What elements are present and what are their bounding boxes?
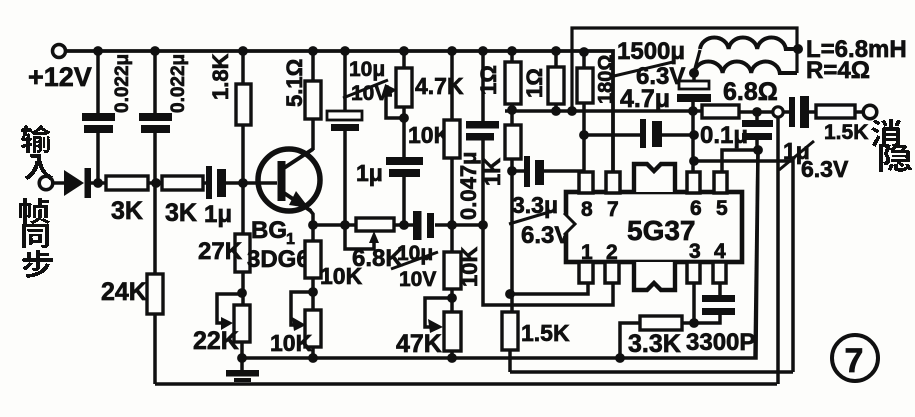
wire 10Kpot-gnd	[311, 347, 315, 358]
capacitor 1u/6.3V out	[789, 96, 809, 128]
resistor 1ohm a	[505, 62, 521, 104]
wire C4.7u-pin6	[662, 133, 694, 137]
svg-text:10K: 10K	[457, 247, 482, 287]
resistor 3K (second)	[162, 176, 203, 190]
label pin5	[716, 197, 728, 220]
junction 0.1u bottom	[753, 145, 763, 155]
wire line B	[510, 370, 793, 374]
junction bus-C047	[478, 46, 488, 56]
junction bus-C1	[93, 46, 103, 56]
label pin4	[714, 240, 726, 263]
label 27K	[198, 238, 243, 265]
label 3DG6	[247, 246, 310, 273]
junction pin6 node	[689, 156, 699, 166]
label 180ohm	[595, 55, 617, 104]
label pin1	[581, 241, 593, 264]
svg-text:2: 2	[606, 241, 618, 264]
label 4.7u	[620, 85, 670, 113]
capacitor 3300P	[694, 283, 735, 323]
wire R24K-lineC	[153, 314, 157, 384]
label pin7	[607, 198, 619, 221]
label 5.1ohm	[282, 59, 307, 107]
label 3K first	[111, 197, 143, 225]
wire R1a-R1K	[510, 104, 514, 126]
label 1u/6.3V	[779, 138, 849, 182]
label text 步	[22, 250, 53, 278]
svg-text:7: 7	[845, 342, 864, 380]
wire 3K-3K	[148, 181, 162, 185]
junction rail-10K	[447, 220, 457, 230]
label 10u/10V top	[343, 58, 388, 105]
resistor 180ohm	[577, 68, 593, 103]
label 0.1u	[700, 122, 748, 149]
junction 10K-gnd	[308, 353, 318, 363]
svg-text:3K: 3K	[111, 197, 143, 225]
wire em-R10K	[311, 225, 315, 242]
resistor 27K	[235, 234, 250, 272]
wire R10K1-rail	[450, 158, 454, 225]
svg-text:3.3K: 3.3K	[628, 330, 681, 358]
svg-text:R=4Ω: R=4Ω	[806, 57, 870, 84]
junction 4.7u node	[579, 130, 589, 140]
diode D1	[64, 168, 91, 198]
resistor 5.1ohm	[305, 81, 321, 119]
capacitor 4.7u	[640, 119, 662, 148]
svg-text:6.8Ω: 6.8Ω	[723, 78, 778, 106]
junction rail-047	[478, 220, 488, 230]
svg-text:1Ω: 1Ω	[522, 68, 547, 98]
junction coil-rail	[688, 106, 698, 116]
wire 6.8-out	[739, 110, 790, 114]
label 1500u/6.3V	[614, 38, 685, 90]
wire emitter	[309, 209, 313, 225]
junction bus-C2	[150, 46, 160, 56]
resistor 1K	[505, 125, 521, 159]
svg-text:6: 6	[690, 197, 702, 220]
label text 入	[25, 154, 53, 180]
wire R10K2-R47K	[450, 289, 454, 313]
resistor 3K (first)	[106, 176, 148, 190]
junction 22K bottom	[237, 353, 247, 363]
wire C3.3u-pin8	[544, 169, 584, 173]
wire C0.022b	[153, 51, 157, 183]
svg-text:6.3V: 6.3V	[521, 222, 570, 249]
junction bus-R5.1	[308, 46, 318, 56]
svg-text:7: 7	[607, 198, 619, 221]
capacitor 1500u	[677, 73, 711, 111]
wire R4.7K-C1u	[402, 107, 406, 159]
svg-text:1: 1	[581, 241, 593, 264]
pin 4 stub	[713, 262, 726, 283]
svg-text:5G37: 5G37	[627, 215, 696, 246]
label R=4ohm	[806, 57, 870, 84]
wire C1u-rail	[402, 177, 406, 225]
wire line C	[155, 382, 777, 386]
label 0.047u	[456, 151, 481, 220]
wire R1b-node	[554, 104, 558, 111]
pin 1 stub	[579, 262, 593, 283]
resistor 4.7K	[396, 68, 412, 107]
svg-text:10μ: 10μ	[349, 58, 385, 81]
svg-text:1μ: 1μ	[356, 160, 383, 186]
wire collector	[311, 119, 315, 150]
wire R1.5K-term	[855, 110, 863, 114]
node open junction	[773, 107, 783, 117]
label text 输	[21, 125, 50, 153]
svg-text:+12V: +12V	[28, 62, 92, 92]
junction bus-R4.7K	[399, 46, 409, 56]
junction rail-1u	[399, 220, 409, 230]
junction 1ohm node	[507, 105, 517, 115]
svg-text:0.022μ: 0.022μ	[112, 54, 133, 113]
resistor 24K	[147, 274, 163, 314]
IC bottom tab	[634, 262, 675, 290]
label 1.8K	[208, 53, 233, 100]
wire pin1 link	[510, 284, 588, 294]
wire +12V bus	[66, 51, 613, 173]
resistor 10K emitter	[305, 241, 321, 278]
capacitor 1u input	[206, 166, 226, 199]
svg-text:5: 5	[716, 197, 728, 220]
junction 3.3K-gnd	[615, 353, 625, 363]
label 6.8ohm	[723, 78, 778, 106]
label 10K emitter	[320, 263, 363, 289]
junction 1ohm-b node	[551, 106, 561, 116]
svg-text:1500μ: 1500μ	[617, 38, 685, 65]
svg-text:4: 4	[714, 240, 726, 263]
svg-text:10V: 10V	[351, 82, 388, 105]
junction bus-R10K	[447, 46, 457, 56]
label 1.5K mid	[521, 320, 570, 346]
label L=6.8mH	[806, 36, 907, 63]
wire pin6 col	[691, 111, 695, 173]
svg-text:BG: BG	[251, 217, 287, 244]
resistor 10K lower	[444, 252, 461, 289]
svg-text:24K: 24K	[101, 278, 147, 306]
svg-text:4.7K: 4.7K	[415, 73, 464, 99]
label 1K	[480, 158, 505, 186]
svg-text:8: 8	[581, 198, 593, 221]
junction input-C1	[93, 178, 103, 188]
resistor 1ohm b	[548, 67, 564, 104]
label text 同	[22, 224, 49, 248]
label 3K second	[165, 199, 197, 227]
label 6.8K	[352, 245, 403, 272]
resistor 1.8K	[236, 84, 251, 125]
wire feedback box	[572, 28, 797, 111]
label 3.3u/6.3V	[509, 192, 570, 249]
wire node2-R24K	[153, 183, 157, 275]
label 10K lower	[457, 247, 482, 287]
pin 3 stub	[687, 262, 700, 283]
junction coil left	[689, 68, 699, 78]
wire bus-R1.8K	[241, 51, 245, 85]
label 0.022u b	[168, 54, 189, 113]
wire R180-pin8	[582, 103, 586, 173]
junction 1K bottom	[507, 166, 517, 176]
pin 5 stub	[714, 172, 727, 193]
wire bus-R5.1	[311, 51, 315, 82]
junction bus-R180	[579, 47, 589, 57]
svg-text:0.047μ: 0.047μ	[456, 151, 481, 220]
wire R1.8K-base	[241, 125, 245, 183]
resistor 10K upper	[444, 120, 460, 158]
wire R1K-down	[510, 159, 514, 313]
svg-text:0.022μ: 0.022μ	[168, 54, 189, 113]
pin 7 stub	[606, 172, 620, 193]
resistor 10K (pot)	[305, 310, 321, 347]
label 10K pot	[270, 330, 313, 356]
svg-text:27K: 27K	[198, 238, 243, 265]
junction bus-R1ohm-b	[551, 46, 561, 56]
junction 0.1u top	[752, 107, 762, 117]
wire rail-R10K2	[450, 225, 454, 253]
svg-text:47K: 47K	[396, 330, 442, 358]
label 1u input	[204, 201, 232, 228]
label 1ohm a	[476, 65, 501, 95]
pot wiper 10K	[291, 292, 313, 331]
svg-text:1.5K: 1.5K	[521, 320, 570, 346]
terminal +12V	[53, 45, 66, 58]
svg-text:22K: 22K	[193, 327, 239, 355]
label 3.3K	[628, 330, 681, 358]
wire output drop	[776, 117, 780, 384]
svg-text:10K: 10K	[270, 330, 313, 356]
junction 4.7K bottom	[399, 113, 409, 123]
pot wiper 47K	[425, 298, 452, 333]
label BG1	[251, 217, 295, 248]
label input 输入帧同步 placeholder	[0, 0, 1, 1]
svg-text:0.1μ: 0.1μ	[700, 122, 748, 149]
label pin8	[581, 198, 593, 221]
label text 帧	[19, 198, 50, 224]
junction rail-box	[567, 106, 577, 116]
wire ground bus A	[242, 150, 758, 358]
wire 1K-C3.3u	[512, 169, 525, 173]
wire R10K-R10Kpot	[311, 278, 315, 311]
svg-text:3DG6: 3DG6	[247, 246, 310, 273]
pin 2 stub	[605, 262, 619, 283]
label 10K first	[408, 122, 451, 148]
capacitor 0.1u	[742, 112, 773, 150]
IC top tab	[634, 164, 675, 192]
junction pin1 node	[505, 289, 515, 299]
capacitor 10u/10V b	[413, 211, 434, 240]
junction 10Kpot top	[308, 287, 318, 297]
wire R22K-gnd	[240, 342, 244, 358]
label pin2	[606, 241, 618, 264]
capacitor 0.047u	[466, 121, 499, 141]
svg-text:1.5K: 1.5K	[824, 121, 868, 144]
label 24K	[101, 278, 147, 306]
junction 22K top	[237, 288, 247, 298]
pin 8 stub	[579, 172, 593, 193]
IC U1 5G37 body	[563, 192, 742, 262]
wire C047-rail	[481, 140, 485, 225]
pot wiper 22K	[217, 294, 242, 330]
wire bus-R1b	[554, 51, 558, 68]
terminal input	[39, 176, 53, 190]
wire 3K-C1u	[203, 181, 207, 185]
capacitor 3.3u	[524, 156, 544, 187]
label 3300P	[686, 329, 755, 356]
inductor L coil	[694, 38, 797, 73]
svg-text:1Ω: 1Ω	[476, 65, 501, 95]
svg-text:10K: 10K	[320, 263, 363, 289]
label 22K	[193, 327, 239, 355]
junction base-bias	[238, 178, 248, 188]
wire 4.7u link	[584, 133, 641, 137]
svg-text:3: 3	[689, 240, 701, 263]
wire R1.5K-lineB	[508, 350, 512, 372]
svg-text:10V: 10V	[399, 268, 436, 291]
pin 6 stub	[687, 172, 700, 193]
wire C047-pin2	[483, 225, 613, 305]
wire bus-C047	[481, 51, 485, 122]
resistor 22K (pot)	[234, 305, 250, 342]
junction coil right	[793, 44, 803, 54]
junction bus-C10u	[340, 46, 350, 56]
label 4.7K	[415, 73, 464, 99]
svg-text:3K: 3K	[165, 199, 197, 227]
junction bus-R1ohm-a	[507, 46, 517, 56]
wire pin5 link	[722, 150, 758, 173]
svg-text:3.3μ: 3.3μ	[512, 192, 558, 218]
junction emitter	[308, 220, 318, 230]
wire bus-R180	[582, 52, 586, 69]
capacitor 10u/10V elko	[327, 111, 362, 131]
resistor 1.5K mid	[502, 312, 518, 350]
ground	[226, 358, 259, 382]
svg-text:1K: 1K	[480, 158, 505, 186]
wire pin6-lineB	[694, 161, 793, 372]
label text 消	[871, 119, 901, 147]
capacitor 1u mid	[386, 157, 423, 177]
wire R47K-gndbus	[450, 351, 454, 358]
figure number 7	[832, 335, 878, 381]
resistor 3.3K	[620, 316, 694, 358]
label 1u mid	[356, 160, 383, 186]
wire input	[53, 181, 65, 185]
wire bus-R10K1	[450, 51, 454, 121]
resistor 47K (pot)	[444, 312, 461, 351]
label 0.022u a	[112, 54, 133, 113]
wire cap-R1.5K	[809, 110, 816, 114]
wire bus-R1a	[510, 51, 514, 63]
junction pin3 node	[689, 318, 699, 328]
capacitor 0.022u a	[82, 113, 115, 133]
svg-text:6.3V: 6.3V	[801, 156, 849, 182]
wire pin3	[692, 283, 696, 323]
label 10u/10V b	[391, 242, 438, 291]
resistor 6.8K (pot)	[356, 218, 394, 231]
label 5G37	[627, 215, 696, 246]
label output 消隐 placeholder	[0, 0, 1, 1]
svg-text:6.3V: 6.3V	[636, 63, 685, 90]
svg-text:1.8K: 1.8K	[208, 53, 233, 100]
wire 1ohm rail	[505, 109, 702, 113]
svg-text:1μ: 1μ	[204, 201, 232, 228]
junction pin6-4.7u	[689, 130, 699, 140]
wire 0.1u-gnd	[755, 150, 758, 358]
junction 47K top	[447, 293, 457, 303]
wire C1u-base	[226, 181, 277, 185]
label pin6	[690, 197, 702, 220]
wire C0.022a	[96, 51, 100, 183]
label 47K	[396, 330, 442, 358]
svg-text:5.1Ω: 5.1Ω	[282, 59, 307, 107]
svg-text:3300P: 3300P	[686, 329, 755, 356]
pot wiper 4.7K	[385, 84, 404, 118]
resistor 1.5K out	[816, 105, 855, 118]
transistor Q1 BG1	[258, 149, 320, 211]
wire R27K-R22K	[241, 272, 245, 306]
svg-text:180Ω: 180Ω	[595, 55, 617, 104]
pot wiper 6.8K	[345, 225, 379, 249]
label +12V	[28, 62, 92, 92]
wire 10u elko col	[343, 51, 347, 225]
resistor 6.8ohm	[702, 105, 739, 118]
junction rail-C10u	[340, 220, 350, 230]
wire base-R27K	[241, 183, 245, 235]
junction bus-R1.8K	[238, 46, 248, 56]
label 1ohm b	[522, 68, 547, 98]
wire diode-3K	[91, 181, 106, 185]
terminal output	[863, 105, 877, 119]
wire bus-R4.7K	[402, 51, 406, 69]
capacitor 0.022u b	[139, 113, 172, 133]
wire emitter rail	[313, 223, 483, 227]
junction 47K bottom	[447, 353, 457, 363]
label 1.5K out	[824, 121, 868, 144]
junction input-node2	[151, 178, 161, 188]
label text 隐	[879, 143, 912, 172]
label pin3	[689, 240, 701, 263]
